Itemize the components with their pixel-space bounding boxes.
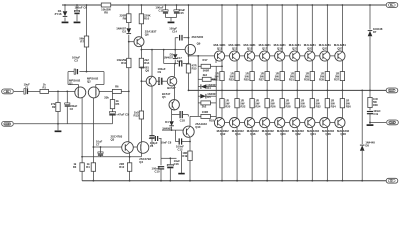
label designator Q19 bbox=[277, 46, 283, 50]
wire collector Q16 bbox=[251, 127, 253, 181]
wire C15 branch bbox=[176, 5, 178, 11]
svg-text:R10: R10 bbox=[144, 17, 150, 21]
wire Q2 collector to base wire bbox=[92, 98, 94, 148]
resistor R2 27k bbox=[56, 103, 60, 112]
wire ground stub bbox=[57, 124, 59, 130]
junction C7 top bbox=[100, 146, 102, 148]
wire R10 upper bbox=[140, 5, 142, 14]
trimmer RT1 3k3 bbox=[202, 77, 211, 81]
transistor Q14 MJL4302 bbox=[229, 118, 239, 128]
junction D7 output rail bbox=[369, 90, 371, 92]
diode D4b 1N4007 bbox=[169, 121, 174, 126]
wire collector Q18 bbox=[266, 127, 268, 181]
label D7 1N4448 bbox=[373, 27, 383, 34]
junction output rail column 3 bbox=[251, 90, 253, 92]
wire collector Q24 bbox=[311, 127, 313, 181]
wire VAS column mid bbox=[140, 81, 142, 111]
label R21 1R 5W bbox=[214, 71, 220, 81]
svg-text:Q14: Q14 bbox=[235, 132, 241, 136]
junction C6 top bbox=[76, 4, 78, 6]
wire D4 right bbox=[207, 86, 217, 88]
diode D7 1N4448 bbox=[368, 31, 373, 37]
svg-text:1N4007: 1N4007 bbox=[164, 56, 174, 60]
wire collector Q27 bbox=[341, 5, 343, 52]
svg-text:Q21: Q21 bbox=[292, 46, 298, 50]
wire C9 right bbox=[162, 80, 167, 82]
transistor Q10 2SA1943 bbox=[183, 126, 194, 137]
wire R22 feed bbox=[236, 90, 238, 98]
wire R24 feed bbox=[251, 90, 253, 98]
label D4b 1N4007 bbox=[162, 127, 172, 131]
wire C18 right bbox=[183, 114, 188, 116]
capacitor C14 100pF bbox=[180, 35, 182, 41]
svg-text:ZY16: ZY16 bbox=[55, 12, 62, 16]
junction miller right bbox=[188, 37, 190, 39]
wire R5 upper bbox=[112, 93, 114, 99]
wire R30 feed bbox=[296, 90, 298, 98]
capacitor C9 100uF bbox=[158, 78, 162, 85]
wire emitter stub left bbox=[68, 84, 79, 86]
label R2 27k bbox=[51, 102, 56, 109]
wire emitter Q20 bbox=[281, 108, 283, 119]
wire D3 upper bbox=[174, 50, 176, 54]
svg-text:R3: R3 bbox=[73, 165, 77, 169]
junction V- rail column 5 bbox=[281, 180, 283, 182]
wire Q6 base bbox=[129, 41, 136, 43]
wire C12 left bbox=[175, 141, 179, 143]
transistor Q8 BD681 bbox=[146, 76, 156, 86]
junction D1 top bbox=[64, 4, 66, 6]
resistor R8 10k/2W bbox=[101, 3, 110, 7]
resistor R27 1R 5W bbox=[265, 72, 269, 81]
wire V- rail bbox=[82, 180, 386, 182]
label designator Q20 bbox=[280, 132, 286, 136]
label designator Q25 bbox=[322, 46, 328, 50]
label C11 100uF bbox=[155, 6, 164, 13]
label designator Q11 bbox=[217, 46, 223, 50]
label Q27 MJL4281 bbox=[334, 43, 346, 47]
wire bias row right bbox=[183, 63, 189, 65]
label Q18 MJL4302 bbox=[262, 129, 274, 133]
wire collector Q19 bbox=[281, 5, 283, 52]
wire C19 lower bbox=[369, 114, 371, 123]
wire V+ rail bbox=[62, 4, 386, 6]
label R1 1k bbox=[42, 82, 46, 89]
wire emitter stub right bbox=[96, 84, 104, 86]
junction V+ rail column 4 bbox=[266, 4, 268, 6]
transistor Q5b BC547 bbox=[169, 100, 179, 110]
label R17 bbox=[202, 58, 208, 62]
label C1 10uF bbox=[24, 82, 31, 89]
svg-text:3k3: 3k3 bbox=[203, 73, 208, 77]
wire R14 to Q8 base bbox=[140, 68, 142, 82]
ground below R2 bbox=[55, 130, 62, 132]
transistor Q23 MJL4281 bbox=[305, 51, 315, 61]
svg-text:C2: C2 bbox=[70, 107, 74, 111]
label designator Q27 bbox=[337, 46, 343, 50]
wire collector Q17 bbox=[266, 5, 268, 52]
junction V+ rail column 1 bbox=[221, 4, 223, 6]
svg-text:R6: R6 bbox=[115, 85, 119, 89]
label designator Q18 bbox=[265, 132, 271, 136]
resistor R7 56k bbox=[84, 36, 88, 47]
svg-text:C19: C19 bbox=[373, 112, 378, 116]
wire R21 to output rail bbox=[221, 81, 223, 91]
label C10 100nF bbox=[152, 167, 160, 174]
junction speaker ground bbox=[369, 122, 371, 124]
svg-text:Q24: Q24 bbox=[310, 132, 316, 136]
label designator Q13 bbox=[232, 46, 238, 50]
junction R4 rail bbox=[93, 180, 95, 182]
label C6 100uF bbox=[75, 5, 88, 9]
junction V- rail column 2 bbox=[236, 180, 238, 182]
junction output rail column 2 bbox=[236, 90, 238, 92]
connector B- bbox=[386, 178, 398, 183]
label R12 22R bbox=[119, 162, 124, 169]
label R32 1R 5W bbox=[316, 98, 322, 108]
wire C5 lower bbox=[112, 116, 114, 124]
junction V+ rail column 7 bbox=[311, 4, 313, 6]
transistor Q25 MJL4281 bbox=[320, 51, 330, 61]
label R7 56k bbox=[79, 37, 84, 44]
wire R18 left bbox=[190, 115, 201, 117]
svg-text:C1: C1 bbox=[25, 85, 29, 89]
wire collector Q23 bbox=[311, 5, 313, 52]
wire C18 to collector node bbox=[187, 115, 189, 117]
wire R25 to output rail bbox=[251, 81, 253, 91]
label R34 1R 5W bbox=[331, 98, 337, 108]
svg-text:R26: R26 bbox=[270, 104, 276, 108]
wire bias stub bbox=[163, 50, 165, 64]
label RT1 bbox=[212, 78, 218, 82]
label R13 1k5 bbox=[133, 110, 139, 117]
junction C3 feed bbox=[86, 71, 88, 73]
label C9 100uF bbox=[158, 67, 166, 74]
junction Q8 collector bbox=[151, 49, 153, 51]
resistor R34 1R 5W bbox=[325, 99, 329, 108]
resistor R23 1R 5W bbox=[235, 72, 239, 81]
wire feedback to Q3 collector bbox=[128, 91, 130, 141]
resistor R38 10R 5W bbox=[368, 98, 372, 108]
label C5 47uF bbox=[116, 113, 129, 117]
wire R19 to V- rail bbox=[189, 161, 191, 181]
svg-text:R37: R37 bbox=[334, 77, 340, 81]
junction Q3 base node bbox=[93, 146, 95, 148]
svg-text:Q10: Q10 bbox=[195, 125, 201, 129]
svg-text:R33: R33 bbox=[304, 77, 310, 81]
label R29 1R 5W bbox=[274, 71, 280, 81]
wire Q1 collector to R3 bbox=[81, 98, 83, 157]
wire D8 upper bbox=[361, 90, 363, 144]
label BC547 upper bbox=[167, 86, 176, 90]
svg-text:R30: R30 bbox=[301, 104, 307, 108]
svg-text:33k: 33k bbox=[104, 96, 109, 100]
label designator Q15 bbox=[247, 46, 253, 50]
wire emitter Q12 bbox=[221, 108, 223, 119]
svg-text:C16: C16 bbox=[174, 162, 180, 166]
wire C8 right bbox=[159, 138, 162, 140]
wire R13 to Q4 collector bbox=[140, 119, 142, 142]
wire R9 upper bbox=[128, 5, 130, 14]
wire emitter Q14 bbox=[236, 108, 238, 119]
resistor R25 1R 5W bbox=[250, 72, 254, 81]
wire C12 right bbox=[182, 141, 190, 143]
diode D8 1N4448 bbox=[360, 145, 365, 151]
capacitor C5 47uF bbox=[109, 112, 115, 115]
label designator Q12 bbox=[220, 132, 226, 136]
label D2 1N4007 bbox=[116, 27, 126, 34]
svg-text:C14: C14 bbox=[172, 29, 177, 33]
wire C1 to R1 bbox=[28, 90, 40, 92]
label Q2 MPSA92 bbox=[87, 77, 99, 84]
resistor R22 1R 5W bbox=[235, 99, 239, 108]
svg-text:R34: R34 bbox=[331, 104, 337, 108]
wire decoupling to ground bbox=[170, 18, 172, 22]
wire Q3 emitter bbox=[129, 153, 131, 157]
label C14 100pF bbox=[169, 26, 177, 33]
label designator Q23 bbox=[307, 46, 313, 50]
label Q20 MJL4302 bbox=[277, 129, 289, 133]
junction C16 rail bbox=[169, 180, 171, 182]
label Q11 MJL4281 bbox=[213, 43, 225, 47]
wire Q10 base wire bbox=[162, 129, 183, 131]
svg-text:R27: R27 bbox=[259, 77, 265, 81]
wire emitter Q27 bbox=[341, 60, 343, 71]
svg-text:Q27: Q27 bbox=[337, 46, 343, 50]
wire bias chain left bbox=[197, 56, 199, 117]
svg-text:+47uF C5: +47uF C5 bbox=[116, 113, 129, 117]
junction bias row bbox=[174, 63, 176, 65]
wire R17 right bbox=[211, 65, 223, 67]
wire D8 lower bbox=[361, 151, 363, 181]
svg-text:D8: D8 bbox=[365, 143, 369, 147]
junction output rail column 6 bbox=[296, 90, 298, 92]
wire node to R11 bbox=[128, 42, 130, 59]
capacitor C10 100nF bbox=[158, 167, 164, 169]
wire C10-C16 feed bbox=[161, 157, 177, 159]
svg-text:R21: R21 bbox=[214, 77, 220, 81]
wire collector Q26 bbox=[326, 127, 328, 181]
resistor R35 1R 5W bbox=[325, 72, 329, 81]
wire miller right bbox=[183, 37, 188, 39]
transistor Q5a BC547 bbox=[167, 76, 177, 86]
label R3 1k bbox=[73, 162, 77, 169]
wire D4b lower bbox=[171, 127, 173, 131]
svg-text:Q9: Q9 bbox=[197, 42, 201, 46]
label C15 10uF bbox=[179, 8, 186, 15]
junction output rail column 4 bbox=[266, 90, 268, 92]
wire output rail bbox=[189, 89, 387, 91]
wire R29 to output rail bbox=[281, 81, 283, 91]
label R33 1R 5W bbox=[304, 71, 310, 81]
label R10 220K bbox=[144, 14, 151, 21]
svg-text:R11: R11 bbox=[121, 61, 126, 65]
wire emitter Q13 bbox=[236, 60, 238, 71]
wire emitter Q24 bbox=[311, 108, 313, 119]
wire C11-C15 join bbox=[166, 17, 177, 19]
svg-text:Q25: Q25 bbox=[322, 46, 328, 50]
svg-text:Q17: Q17 bbox=[262, 46, 268, 50]
wire C18 left bbox=[172, 114, 180, 116]
svg-text:Q2: Q2 bbox=[87, 80, 91, 84]
wire R11 to feedback node bbox=[128, 68, 130, 92]
svg-text:R38: R38 bbox=[373, 103, 378, 107]
wire emitter Q26 bbox=[326, 108, 328, 119]
svg-text:R35: R35 bbox=[319, 77, 325, 81]
ground below C12 bbox=[178, 173, 184, 175]
label Q13 MJL4281 bbox=[229, 43, 241, 47]
label R23 1R 5W bbox=[229, 71, 235, 81]
ground below zobel bbox=[367, 124, 374, 126]
wire collector Q20 bbox=[281, 127, 283, 181]
wire emitter Q17 bbox=[266, 60, 268, 71]
svg-text:R32: R32 bbox=[316, 104, 322, 108]
label R14 2k2 bbox=[144, 58, 150, 65]
svg-text:1uF: 1uF bbox=[177, 59, 182, 63]
wire lower base bus bbox=[216, 122, 341, 124]
junction Q6 base node bbox=[128, 41, 130, 43]
resistor R3 1k bbox=[80, 163, 84, 172]
junction V- rail column 6 bbox=[296, 180, 298, 182]
wire C8 drop bbox=[160, 139, 162, 159]
transistor Q9 2SC5200 bbox=[185, 44, 195, 54]
junction R15 rail bbox=[188, 90, 190, 92]
wire D7 lower bbox=[369, 36, 371, 90]
wire collector Q11 bbox=[221, 5, 223, 52]
wire Q4 emitter bbox=[140, 153, 142, 157]
svg-text:R5: R5 bbox=[116, 102, 120, 106]
wire Q8 base bbox=[141, 80, 146, 82]
label C16 10uF bbox=[174, 159, 181, 166]
label R18 100R bbox=[202, 110, 208, 114]
svg-text:C12: C12 bbox=[177, 148, 183, 152]
svg-text:C18: C18 bbox=[180, 119, 186, 123]
junction V- rail column 7 bbox=[311, 180, 313, 182]
wire emitter loop top-right bbox=[79, 71, 104, 73]
junction VAS node bbox=[141, 49, 143, 51]
connector B+ bbox=[386, 3, 398, 8]
label R30 1R 5W bbox=[301, 98, 307, 108]
wire trimmer left bbox=[198, 78, 202, 80]
label R24 1R 5W bbox=[255, 98, 261, 108]
label R11 10k/2W bbox=[117, 58, 127, 65]
wire R37 to output rail bbox=[341, 81, 343, 91]
junction bias stub top bbox=[163, 49, 165, 51]
transistor Q18 MJL4302 bbox=[260, 118, 270, 128]
label R25 1R 5W bbox=[244, 71, 250, 81]
capacitor C19 100nF bbox=[367, 112, 373, 114]
junction V- rail column 9 bbox=[342, 180, 344, 182]
label Q1 MPSA92 bbox=[69, 78, 81, 85]
wire C11 bottom bbox=[165, 14, 167, 18]
junction D8 rail bbox=[361, 180, 363, 182]
label R5 1k bbox=[116, 99, 120, 106]
junction V- rail column 1 bbox=[221, 180, 223, 182]
wire C2 lower bbox=[66, 107, 68, 124]
label Q16 MJL4302 bbox=[247, 129, 259, 133]
svg-text:Q13: Q13 bbox=[232, 46, 238, 50]
wire Q10 emitter bbox=[189, 138, 191, 151]
junction output rail column 5 bbox=[281, 90, 283, 92]
wire R12 upper bbox=[129, 157, 131, 163]
label R9 220R bbox=[120, 14, 127, 21]
svg-text:R9: R9 bbox=[123, 17, 127, 21]
transistor Q11 MJL4281 bbox=[214, 51, 224, 61]
wire D5 right bbox=[207, 95, 217, 97]
capacitor C2 100uF bbox=[65, 103, 70, 106]
wire C7 upper bbox=[100, 147, 102, 153]
label C17 1uF bbox=[177, 56, 182, 63]
transistor Q17 MJL4281 bbox=[260, 51, 270, 61]
wire R12 to V- rail bbox=[129, 171, 131, 180]
wire zener to ground bbox=[64, 18, 66, 22]
ground below C6 bbox=[74, 21, 81, 23]
wire Q2 base feedback bbox=[99, 90, 112, 92]
svg-text:D4: D4 bbox=[165, 120, 169, 124]
svg-text:R15: R15 bbox=[192, 67, 197, 71]
junction C10-C16 feed bbox=[169, 157, 171, 159]
transistor Q1 MPSA92 bbox=[75, 87, 86, 98]
wire emitter loop right bbox=[103, 72, 105, 85]
junction output rail column 1 bbox=[221, 90, 223, 92]
label designator Q26 bbox=[325, 132, 331, 136]
connector OUT bbox=[386, 88, 398, 93]
wire R4 upper bbox=[92, 147, 94, 163]
capacitor C17 1uF bbox=[179, 61, 181, 67]
label Q26 MJL4302 bbox=[322, 129, 334, 133]
wire R34 feed bbox=[326, 90, 328, 98]
label C2 100uF bbox=[70, 104, 78, 111]
junction R19 rail bbox=[189, 180, 191, 182]
svg-text:2SC5200: 2SC5200 bbox=[192, 35, 204, 39]
junction R9 top bbox=[128, 4, 130, 6]
junction V+ rail column 3 bbox=[251, 4, 253, 6]
junction output rail column 8 bbox=[326, 90, 328, 92]
junction V- rail column 8 bbox=[326, 180, 328, 182]
wire R36 feed bbox=[341, 90, 343, 98]
connector speaker GND bbox=[387, 120, 399, 125]
capacitor C7 10uF bbox=[98, 152, 103, 155]
label designator Q17 bbox=[262, 46, 268, 50]
wire R32 feed bbox=[311, 90, 313, 98]
svg-text:Q6: Q6 bbox=[145, 32, 149, 36]
resistor R21 1R 5W bbox=[220, 72, 224, 81]
wire R15 to output rail bbox=[188, 73, 190, 90]
junction R2 ground bbox=[57, 123, 59, 125]
wire R4 to V- rail bbox=[92, 171, 94, 180]
wire collector Q21 bbox=[296, 5, 298, 52]
wire C10 upper bbox=[160, 158, 162, 165]
wire R5 to C5 bbox=[112, 109, 114, 113]
transistor Q16 MJL4302 bbox=[245, 118, 255, 128]
label designator Q24 bbox=[310, 132, 316, 136]
label D5 1N4007 bbox=[207, 92, 217, 99]
wire R23 to output rail bbox=[236, 81, 238, 91]
wire R38 to C19 bbox=[369, 108, 371, 111]
label R22 1R 5W bbox=[240, 98, 246, 108]
label R20 1R 5W bbox=[225, 98, 231, 108]
svg-text:Q20: Q20 bbox=[280, 132, 286, 136]
svg-text:R8: R8 bbox=[104, 11, 108, 15]
junction feedback node bbox=[128, 91, 130, 93]
wire C15 bottom bbox=[176, 14, 178, 18]
label R18 bbox=[209, 119, 214, 123]
svg-text:R36: R36 bbox=[346, 104, 352, 108]
label designator Q28 bbox=[340, 132, 346, 136]
svg-text:R1: R1 bbox=[42, 85, 46, 89]
junction R12 rail bbox=[129, 180, 131, 182]
connector GND bbox=[2, 121, 14, 126]
